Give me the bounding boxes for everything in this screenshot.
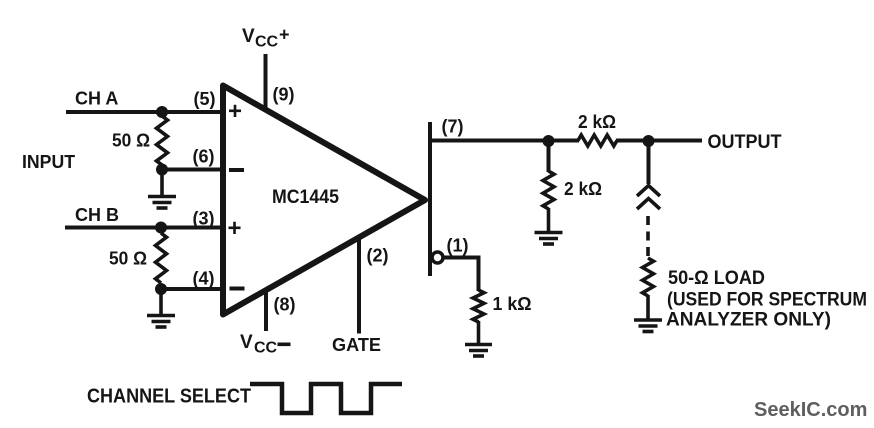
- node VCC- label: [240, 332, 291, 357]
- node junction dot at pin7/2k shunt: [543, 135, 555, 147]
- label 50 ohm load: [666, 268, 867, 331]
- node junction dot CH B: [155, 222, 167, 234]
- svg-text:+: +: [228, 215, 242, 242]
- ground (2k shunt): [535, 208, 563, 244]
- wire to pin 6: [162, 168, 223, 172]
- svg-text:(USED FOR SPECTRUM: (USED FOR SPECTRUM: [667, 290, 867, 311]
- svg-text:CHANNEL SELECT: CHANNEL SELECT: [87, 386, 251, 408]
- svg-text:CC: CC: [255, 34, 279, 51]
- wire GATE stub pin 2: [357, 240, 361, 334]
- svg-text:1 kΩ: 1 kΩ: [493, 294, 532, 314]
- svg-text:GATE: GATE: [332, 335, 381, 355]
- svg-text:(1): (1): [447, 236, 469, 256]
- svg-text:(5): (5): [194, 89, 216, 109]
- op-amp - input marker (pin 4): [230, 287, 245, 291]
- wire CH B input to pin 3: [65, 226, 223, 230]
- svg-text:50 Ω: 50 Ω: [109, 249, 147, 269]
- svg-text:50 Ω: 50 Ω: [112, 131, 150, 151]
- wire VCC+ stub to pin 9: [264, 54, 268, 108]
- wire pin 1 to 1k: [443, 258, 479, 292]
- wire pin 7 horizontal: [428, 139, 579, 143]
- svg-text:OUTPUT: OUTPUT: [708, 132, 782, 153]
- wire 2k shunt down: [547, 141, 551, 172]
- node junction dot pin 6: [156, 164, 168, 176]
- svg-text:(8): (8): [274, 295, 296, 315]
- svg-text:ANALYZER ONLY): ANALYZER ONLY): [666, 310, 831, 331]
- svg-text:CH B: CH B: [75, 205, 119, 225]
- resistor R 2k shunt: [543, 171, 554, 209]
- ground (channel A input): [148, 170, 176, 209]
- wire VCC- stub pin 8: [264, 290, 268, 331]
- svg-text:(6): (6): [193, 147, 215, 167]
- svg-text:+: +: [228, 98, 242, 125]
- ground (channel B input): [147, 289, 175, 327]
- resistor 50 ohm load: [643, 258, 654, 296]
- wire CH A input to pin 5: [66, 110, 223, 114]
- wire after series resistor to output: [616, 139, 702, 143]
- svg-text:50-Ω LOAD: 50-Ω LOAD: [668, 268, 765, 289]
- op-amp - input marker (pin 6): [229, 168, 244, 172]
- node junction dot CH A: [156, 106, 168, 118]
- node junction dot at output/load: [643, 135, 655, 147]
- op-amp U1 MC1445 triangle body: [223, 86, 425, 315]
- svg-text:V: V: [242, 26, 255, 47]
- wire dashed to 50 ohm load: [646, 216, 650, 257]
- svg-text:INPUT: INPUT: [22, 152, 75, 172]
- resistor R 1k: [473, 290, 484, 322]
- svg-text:V: V: [240, 332, 253, 353]
- svg-text:2 kΩ: 2 kΩ: [578, 112, 616, 132]
- resistor R 2k series: [578, 135, 617, 146]
- svg-text:2 kΩ: 2 kΩ: [564, 179, 602, 199]
- node VCC+ label: [242, 25, 290, 51]
- node junction dot pin 4: [155, 283, 167, 295]
- wire output vertical at op-amp apex: [428, 122, 432, 276]
- svg-text:(9): (9): [273, 85, 295, 105]
- resistor 50 ohm (channel A): [157, 116, 168, 165]
- wire to pin 4: [161, 287, 223, 291]
- svg-text:CC: CC: [254, 340, 278, 357]
- resistor 50 ohm (channel B): [156, 233, 167, 283]
- svg-text:(7): (7): [442, 117, 464, 137]
- wire from output node down to load arrows: [647, 141, 651, 184]
- svg-text:SeekIC.com: SeekIC.com: [754, 399, 867, 421]
- svg-text:(3): (3): [193, 209, 215, 229]
- svg-text:MC1445: MC1445: [272, 187, 339, 208]
- svg-text:CH A: CH A: [75, 89, 118, 109]
- load connector chevron arrows: [637, 186, 660, 210]
- svg-text:+: +: [279, 25, 290, 45]
- ground (50 ohm load): [634, 295, 662, 332]
- svg-text:(2): (2): [367, 246, 389, 266]
- pin 1 open-collector circle: [432, 252, 443, 263]
- channel select waveform: [250, 384, 402, 413]
- ground (1k): [465, 321, 492, 356]
- svg-text:(4): (4): [193, 269, 215, 289]
